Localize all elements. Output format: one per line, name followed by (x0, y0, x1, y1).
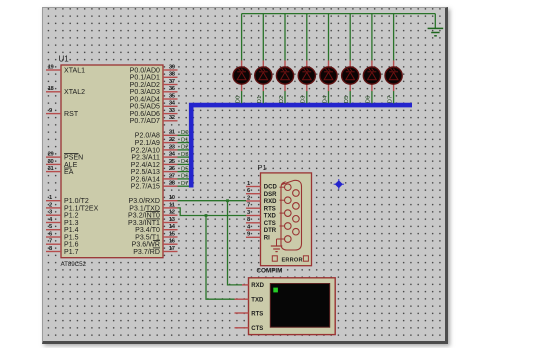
svg-text:P2.5/A13: P2.5/A13 (131, 169, 160, 176)
svg-text:2: 2 (49, 202, 52, 208)
wire P2.2 to bus, net D2 (178, 145, 190, 151)
svg-text:TXD: TXD (251, 298, 264, 304)
junction on RXD wire (226, 199, 229, 202)
U1 left pin 29 PSEN (46, 152, 83, 162)
net label D6 (rotated) on LED wire (366, 96, 372, 104)
svg-text:30: 30 (48, 159, 54, 165)
svg-text:P2.6/A14: P2.6/A14 (131, 176, 160, 183)
U1 right pin 11 P3.1/TXD (129, 202, 177, 212)
svg-text:P1.4: P1.4 (64, 227, 79, 234)
svg-text:P0.4/AD4: P0.4/AD4 (130, 96, 160, 103)
svg-text:D3: D3 (301, 96, 307, 104)
U1 left pin 6 P1.5 (46, 231, 79, 241)
svg-text:EA: EA (64, 169, 74, 176)
svg-text:7: 7 (247, 203, 250, 209)
svg-text:P0.5/AD5: P0.5/AD5 (130, 104, 160, 111)
U1 left pin 5 P1.4 (46, 224, 79, 234)
U1 right pin 24 P2.3/A11 (131, 152, 177, 162)
microcontroller U1 AT89C52 body (61, 65, 163, 258)
U1 right pin 38 P0.1/AD1 (130, 72, 178, 82)
ground symbol (top right) (428, 28, 444, 35)
svg-text:P0.2/AD2: P0.2/AD2 (130, 82, 160, 89)
U1 right pin 35 P0.4/AD4 (130, 93, 178, 103)
U1 left pin 8 P1.7 (46, 246, 79, 256)
svg-text:XTAL2: XTAL2 (64, 89, 85, 96)
wire top rail to LED D5 (349, 14, 351, 104)
svg-text:22: 22 (169, 137, 175, 143)
COMPIM part value label (257, 268, 283, 275)
U1 left pin 19 XTAL1 (46, 64, 85, 74)
COMPIM pin 2 RXD (246, 195, 277, 205)
svg-text:10: 10 (169, 195, 175, 201)
COMPIM P1 reference label (258, 163, 267, 172)
wire junction down to terminal TXD (206, 216, 235, 300)
wire P2.7 to bus, net D7 (178, 181, 190, 187)
svg-text:RTS: RTS (264, 206, 276, 212)
U1 right pin 28 P2.7/A15 (131, 181, 178, 191)
U1 right pin 15 P3.5/T1 (135, 231, 177, 241)
junction on TXD wire (205, 214, 208, 217)
wire P3.1/TXD to COMPIM TXD (178, 208, 247, 216)
U1 right pin 12 P3.2/INT0 (128, 210, 177, 220)
U1 right pin 21 P2.0/A8 (135, 130, 178, 140)
COMPIM pin 7 RTS (246, 203, 276, 213)
svg-text:DCD: DCD (264, 185, 278, 191)
U1 right pin 22 P2.1/A9 (135, 137, 178, 147)
svg-text:D5: D5 (344, 96, 350, 104)
terminal pin RTS (235, 311, 264, 317)
COMPIM pin 1 DCD (246, 181, 277, 191)
wire P2.3 to bus, net D3 (178, 152, 190, 158)
U1 right pin 34 P0.5/AD5 (130, 101, 178, 111)
LED D4 (320, 60, 337, 91)
svg-text:ERROR: ERROR (282, 257, 303, 263)
wire P2.1 to bus, net D1 (178, 137, 190, 143)
virtual terminal body (249, 278, 336, 335)
svg-text:D6: D6 (366, 96, 372, 104)
wire top rail to LED D7 (393, 14, 395, 104)
svg-text:37: 37 (169, 79, 175, 85)
svg-text:D2: D2 (279, 96, 285, 104)
wire top rail to LED D4 (328, 14, 330, 104)
svg-text:P1.1/T2EX: P1.1/T2EX (64, 205, 99, 212)
U1 left pin 4 P1.3 (46, 217, 79, 227)
svg-text:D1: D1 (257, 96, 263, 104)
svg-text:P1.7: P1.7 (64, 249, 79, 256)
svg-text:RTS: RTS (251, 311, 263, 317)
net label D4 (rotated) on LED wire (322, 95, 328, 103)
U1 right pin 25 P2.4/A12 (131, 159, 178, 169)
U1 right pin 17 P3.7/RD (133, 246, 177, 256)
svg-text:P3.4/T0: P3.4/T0 (135, 227, 160, 234)
svg-text:17: 17 (169, 246, 175, 252)
U1 left pin 3 P1.2 (46, 210, 79, 220)
wire P2.4 to bus, net D4 (178, 159, 190, 165)
svg-text:P2.4/A12: P2.4/A12 (131, 162, 160, 169)
COMPIM DB9 connector graphic (280, 180, 302, 250)
wire top rail to LED D1 (262, 14, 264, 104)
svg-text:P0.7/AD7: P0.7/AD7 (130, 118, 160, 125)
svg-text:P1.0/T2: P1.0/T2 (64, 198, 89, 205)
svg-text:P0.3/AD3: P0.3/AD3 (130, 89, 160, 96)
svg-text:P2.1/A9: P2.1/A9 (135, 140, 160, 147)
svg-text:P3.3/INT1: P3.3/INT1 (128, 220, 160, 227)
svg-text:D0: D0 (235, 96, 241, 104)
virtual terminal screen (270, 284, 329, 328)
terminal pin TXD (235, 298, 264, 304)
svg-text:P2.0/A8: P2.0/A8 (135, 133, 160, 140)
U1 right pin 39 P0.0/AD0 (130, 64, 178, 74)
svg-text:D6: D6 (181, 174, 189, 180)
U1 right pin 33 P0.6/AD6 (130, 108, 178, 118)
svg-text:P1.3: P1.3 (64, 220, 79, 227)
COMPIM pin 8 CTS (246, 217, 276, 227)
COMPIM P1 body (261, 173, 312, 266)
COMPIM pin 4 DTR (246, 224, 277, 234)
net label D2 (rotated) on LED wire (279, 96, 285, 104)
wire top rail to LED D3 (306, 14, 308, 104)
U1 right pin 27 P2.6/A14 (131, 173, 178, 183)
svg-text:P0.1/AD1: P0.1/AD1 (130, 75, 160, 82)
svg-text:P1.6: P1.6 (64, 242, 79, 249)
svg-text:U1: U1 (59, 55, 70, 64)
U1 right pin 32 P0.7/AD7 (130, 115, 178, 125)
svg-text:7: 7 (49, 239, 52, 245)
svg-text:RXD: RXD (251, 283, 264, 289)
LED D1 (255, 60, 272, 91)
svg-text:RI: RI (264, 236, 270, 242)
U1 left pin 30 ALE (46, 159, 78, 169)
svg-text:AT89C52: AT89C52 (61, 261, 87, 268)
net label D1 (rotated) on LED wire (257, 96, 263, 104)
svg-text:RST: RST (64, 111, 79, 118)
svg-text:D3: D3 (181, 152, 189, 158)
U1 right pin 23 P2.2/A10 (131, 144, 178, 154)
wire P2.5 to bus, net D5 (178, 166, 190, 172)
svg-text:D7: D7 (387, 96, 393, 104)
U1 left pin 9 RST (46, 108, 79, 118)
svg-text:D7: D7 (181, 181, 189, 187)
U1 right pin 14 P3.4/T0 (135, 224, 177, 234)
svg-text:PSEN: PSEN (64, 155, 83, 162)
svg-text:D4: D4 (322, 95, 328, 103)
svg-text:DTR: DTR (264, 228, 277, 234)
LED D6 (363, 60, 380, 91)
wire P2.6 to bus, net D6 (178, 174, 190, 180)
LED D2 (276, 60, 293, 91)
svg-text:COMPIM: COMPIM (257, 268, 283, 275)
wire top rail to LED D6 (371, 14, 373, 104)
svg-text:P2.3/A11: P2.3/A11 (131, 155, 160, 162)
svg-text:DSR: DSR (264, 192, 277, 198)
svg-text:XTAL1: XTAL1 (64, 67, 85, 74)
COMPIM internal ground symbol (271, 239, 283, 252)
svg-text:D4: D4 (181, 159, 189, 165)
COMPIM ERROR indicator row (272, 256, 308, 263)
origin marker (blue diamond) (334, 179, 344, 189)
svg-text:D1: D1 (181, 137, 189, 143)
COMPIM pin 6 DSR (246, 188, 277, 198)
svg-text:2: 2 (247, 195, 250, 201)
net label D3 (rotated) on LED wire (301, 96, 307, 104)
U1 right pin 37 P0.2/AD2 (130, 79, 178, 89)
bus D[0..7] (blue) (191, 105, 412, 187)
LED D3 (298, 60, 315, 91)
svg-text:P1: P1 (258, 163, 267, 172)
microcontroller U1 reference label (59, 55, 70, 64)
COMPIM pin 3 TXD (246, 210, 276, 220)
wire top rail to LED D2 (284, 14, 286, 104)
LED D0 (233, 60, 250, 91)
LED D7 (385, 60, 402, 91)
svg-text:P1.5: P1.5 (64, 234, 79, 241)
U1 right pin 26 P2.5/A13 (131, 166, 178, 176)
svg-text:P2.2/A10: P2.2/A10 (131, 147, 160, 154)
svg-text:P0.0/AD0: P0.0/AD0 (130, 67, 160, 74)
wire top rail to LED D0 (241, 14, 243, 104)
U1 right pin 13 P3.3/INT1 (128, 217, 177, 227)
wire junction down to terminal RXD (228, 201, 243, 285)
wire P2.0 to bus, net D0 (178, 130, 190, 136)
svg-text:32: 32 (169, 115, 175, 121)
svg-text:D5: D5 (181, 166, 189, 172)
terminal cursor (273, 288, 278, 293)
svg-text:P1.2: P1.2 (64, 213, 79, 220)
svg-text:D0: D0 (181, 130, 189, 136)
U1 left pin 31 EA (46, 166, 74, 176)
U1 right pin 36 P0.3/AD3 (130, 86, 178, 96)
U1 part value AT89C52 (61, 261, 87, 268)
svg-text:27: 27 (169, 173, 175, 179)
svg-text:CTS: CTS (251, 326, 263, 332)
COMPIM pin 9 RI (246, 232, 270, 242)
U1 right pin 16 P3.6/WR (132, 239, 178, 249)
U1 left pin 18 XTAL2 (46, 86, 85, 96)
U1 right pin 10 P3.0/RXD (128, 195, 177, 205)
net label D7 (rotated) on LED wire (387, 96, 393, 104)
wire P3.0/RXD to COMPIM RXD (178, 200, 247, 202)
U1 left pin 7 P1.6 (46, 239, 79, 249)
net label D5 (rotated) on LED wire (344, 96, 350, 104)
svg-text:12: 12 (169, 210, 175, 216)
svg-text:P2.7/A15: P2.7/A15 (131, 184, 160, 191)
terminal pin CTS (235, 326, 264, 332)
svg-text:P0.6/AD6: P0.6/AD6 (130, 111, 160, 118)
terminal pin RXD (242, 283, 265, 289)
svg-text:RXD: RXD (264, 199, 277, 205)
svg-text:P3.7/RD: P3.7/RD (133, 249, 160, 256)
U1 left pin 1 P1.0/T2 (46, 195, 89, 205)
svg-text:TXD: TXD (264, 214, 277, 220)
LED D5 (342, 60, 359, 91)
U1 left pin 2 P1.1/T2EX (46, 202, 99, 212)
wire LED top rail to ground (242, 14, 436, 29)
svg-text:CTS: CTS (264, 221, 276, 227)
svg-text:D2: D2 (181, 145, 189, 151)
svg-text:P3.0/RXD: P3.0/RXD (128, 198, 160, 205)
net label D0 (rotated) on LED wire (235, 96, 241, 104)
